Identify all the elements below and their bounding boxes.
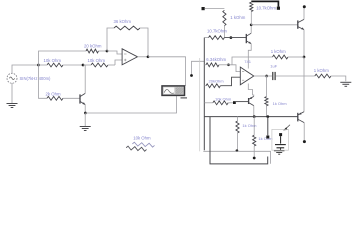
wire Q3 base bbox=[236, 101, 249, 103]
node N bbox=[236, 149, 239, 152]
svg-text:1k Ohm: 1k Ohm bbox=[242, 123, 257, 128]
light selection edge bbox=[199, 58, 201, 151]
svg-text:1 kOhm: 1 kOhm bbox=[271, 49, 286, 54]
ghost resistor shadow bbox=[126, 146, 147, 151]
oscilloscope XSC1 bbox=[162, 86, 185, 96]
terminal dot lower bbox=[253, 157, 256, 160]
VCC square terminal T2 bbox=[277, 7, 280, 10]
wire probe corner bbox=[192, 61, 205, 74]
wire R6 down bbox=[223, 26, 225, 38]
wire Q4 emitter down bbox=[303, 123, 305, 141]
wire T1 to R6 bbox=[205, 8, 225, 10]
svg-text:1 kOhm: 1 kOhm bbox=[230, 15, 245, 20]
wire node A up to R3 bbox=[39, 51, 87, 65]
wire feedback up bbox=[107, 28, 114, 51]
svg-text:20kOhm: 20kOhm bbox=[209, 78, 225, 83]
wire Q2 collector bbox=[250, 25, 252, 33]
svg-text:10k Ohm: 10k Ohm bbox=[215, 96, 232, 101]
svg-text:741: 741 bbox=[244, 59, 251, 64]
emitter terminal dot bbox=[303, 140, 306, 143]
resistor R7 10.7 kOhm bbox=[209, 36, 225, 40]
wire feedback down to output bbox=[140, 28, 148, 57]
scope terminal stub bbox=[181, 97, 188, 99]
wire R2 to op-amp + input bbox=[115, 60, 122, 65]
svg-text:1 kOhm: 1 kOhm bbox=[314, 68, 329, 73]
wire emitter to scope bbox=[85, 96, 176, 114]
wire faint bottom bbox=[203, 151, 270, 164]
wire node L down to R13 bbox=[265, 76, 267, 97]
resistor R5 2k Ohm bbox=[47, 96, 63, 100]
dark bus wire lower bbox=[204, 116, 297, 118]
wire Q2 emitter to op-amp U2 top bbox=[248, 44, 251, 69]
node E emitter bbox=[84, 112, 87, 115]
wire node I to U2 input bbox=[229, 65, 241, 72]
ghost resistor being placed bbox=[132, 142, 154, 147]
svg-text:20 kOhm: 20 kOhm bbox=[84, 43, 102, 48]
svg-text:10k Ohm: 10k Ohm bbox=[44, 58, 62, 63]
op-amp U1 bbox=[122, 49, 137, 65]
svg-text:1k Ohm: 1k Ohm bbox=[258, 136, 273, 141]
svg-text:10.7kOhm: 10.7kOhm bbox=[207, 28, 227, 33]
dark rail bottom bbox=[210, 117, 268, 164]
resistor R2 10k Ohm bbox=[91, 63, 108, 67]
svg-text:SIN(7kHz 400m): SIN(7kHz 400m) bbox=[20, 76, 52, 81]
node M bbox=[266, 115, 269, 118]
ground G3 bbox=[340, 81, 351, 83]
transistor Q4 bbox=[297, 113, 299, 122]
AC source V1 bbox=[7, 73, 17, 83]
svg-text:1uF: 1uF bbox=[270, 64, 277, 69]
svg-text:2k Ohm: 2k Ohm bbox=[46, 91, 61, 96]
wire node A down to R5 bbox=[39, 65, 48, 98]
resistor R8 10.7 kOhm bbox=[250, 2, 253, 11]
VCC rail bar bbox=[251, 1, 278, 6]
ground G1 bbox=[80, 126, 91, 128]
wire Q5 emitter down bbox=[303, 30, 305, 57]
capacitor C1 bbox=[272, 72, 274, 80]
wire R11 to U2 input bbox=[220, 77, 240, 86]
wire Q1 collector bbox=[84, 65, 86, 93]
probe dot bbox=[190, 74, 193, 77]
wire source to gnd bbox=[11, 83, 13, 103]
node K bbox=[253, 115, 256, 118]
VCC square terminal T1 bbox=[202, 7, 205, 10]
resistor R3 20k Ohm bbox=[86, 49, 99, 53]
svg-text:6.34kOhm: 6.34kOhm bbox=[206, 57, 226, 62]
resistor R1 10k Ohm bbox=[47, 63, 63, 67]
node H output emitter bbox=[303, 56, 306, 59]
node L U2 output bbox=[265, 75, 268, 78]
wire source to node A bbox=[12, 65, 39, 73]
op-amp U2 741 bbox=[240, 67, 254, 85]
resistor R14 1 kOhm load bbox=[315, 74, 331, 78]
wire base Q2 bbox=[224, 37, 246, 39]
transistor Q5 bbox=[297, 20, 299, 28]
capacitor C2 bbox=[280, 136, 282, 144]
node D op-amp1 output bbox=[147, 55, 150, 58]
wire Q5 collector up bbox=[303, 8, 305, 19]
node F Q2 base bbox=[230, 36, 233, 39]
wire node M down bbox=[267, 117, 269, 136]
probe arrow bbox=[283, 127, 287, 130]
node B (R1/R2/Q1 collector) bbox=[82, 64, 85, 67]
resistor R13 1k Ohm bbox=[265, 97, 268, 106]
svg-text:10.7kOhm: 10.7kOhm bbox=[256, 6, 276, 11]
collector terminal dot bbox=[303, 5, 306, 8]
node G bbox=[250, 23, 253, 26]
square terminal T3 bbox=[266, 136, 269, 139]
transistor Q3 bbox=[248, 98, 250, 104]
wire y57 corner bbox=[232, 57, 273, 65]
node A bbox=[37, 64, 40, 67]
dark vertical bus wire bbox=[203, 38, 205, 151]
svg-text:36 kOhm: 36 kOhm bbox=[114, 19, 132, 24]
wire Q3 emitter link bbox=[253, 95, 254, 96]
node I (6.34k junction) bbox=[227, 63, 230, 66]
wire emitter to gnd bbox=[84, 113, 86, 127]
wire node H down to Q4 bbox=[303, 57, 305, 111]
resistor R10 6.34 kOhm bbox=[206, 63, 219, 67]
wire node G to Q5 base bbox=[251, 24, 298, 26]
ground G4 bbox=[274, 150, 285, 152]
square node J bbox=[233, 101, 236, 104]
resistor R15 vertical bbox=[236, 121, 239, 133]
ground G2 bbox=[7, 103, 18, 105]
transistor Q2 bbox=[245, 34, 247, 43]
resistor R4 feedback 36 kOhm bbox=[114, 26, 140, 30]
resistor R12 10k Ohm bbox=[213, 101, 228, 105]
selection box around C2 bbox=[272, 129, 289, 150]
resistor R16 vertical bbox=[253, 135, 256, 146]
svg-text:10k Ohm: 10k Ohm bbox=[133, 136, 151, 141]
square terminal T4 bbox=[279, 133, 282, 136]
svg-text:10k Ohm: 10k Ohm bbox=[88, 58, 106, 63]
wire op-amp output bbox=[138, 56, 149, 58]
wire Q1 emitter bbox=[84, 105, 86, 113]
wire Q3 collector bbox=[253, 106, 255, 117]
resistor R6 1 kOhm bbox=[223, 10, 226, 25]
resistor R11 20 kOhm bbox=[206, 84, 220, 88]
svg-text:1k Ohm: 1k Ohm bbox=[273, 101, 288, 106]
resistor R9 1 kOhm bbox=[273, 55, 289, 59]
node C (inverting input) bbox=[106, 50, 109, 53]
wire node C to op-amp - input bbox=[107, 51, 122, 54]
wire output to scope bbox=[148, 57, 186, 86]
transistor Q1 bbox=[79, 94, 81, 103]
wire U2 out bbox=[254, 75, 262, 77]
wire U2 bottom pin bbox=[248, 84, 252, 96]
